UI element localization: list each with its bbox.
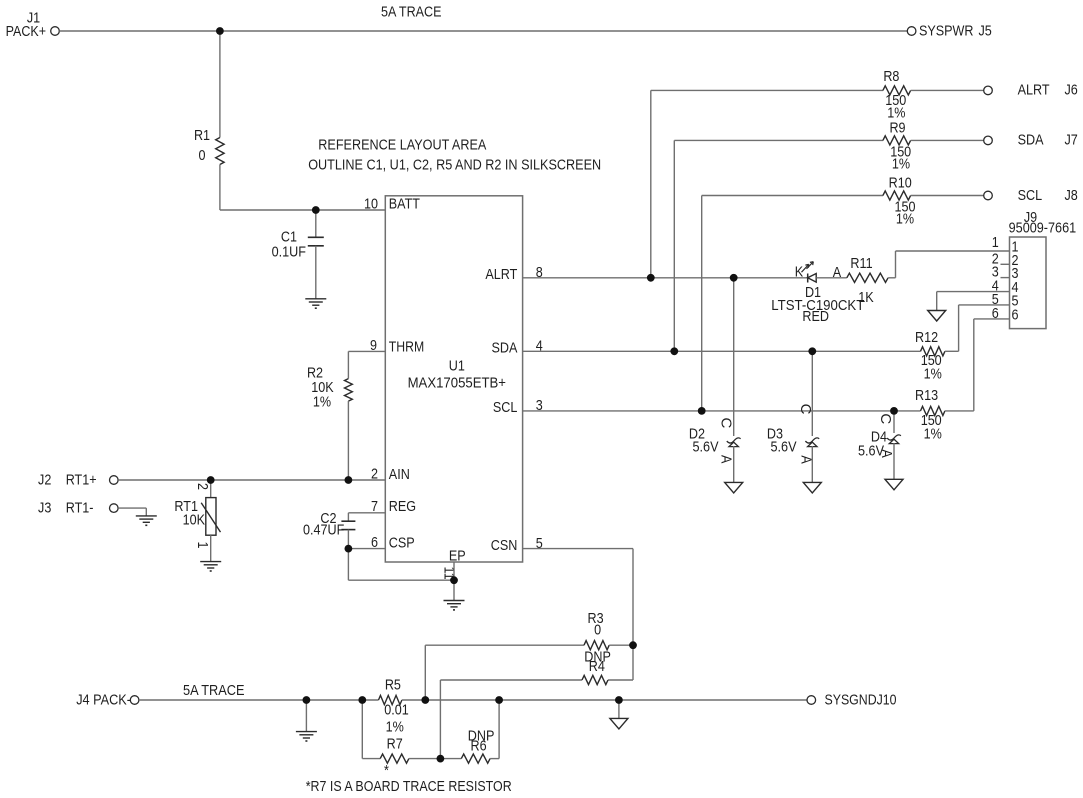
ground D3 — [803, 482, 821, 493]
resistor R9 — [883, 136, 911, 145]
wire R3 riser — [424, 645, 426, 700]
wire R8 row left — [651, 89, 883, 91]
wire D2 cathode lead — [733, 278, 735, 436]
wire REG pin7 — [348, 512, 385, 514]
svg-text:OUTLINE C1, U1, C2, R5 AND R2: OUTLINE C1, U1, C2, R5 AND R2 IN SILKSCR… — [308, 156, 601, 173]
junction ALRT / D2 — [730, 274, 738, 282]
wire CSP pin6 — [348, 548, 385, 550]
svg-text:CSN: CSN — [491, 537, 518, 554]
wire R1 top lead — [219, 31, 221, 138]
svg-text:1%: 1% — [892, 156, 910, 173]
svg-text:C: C — [718, 418, 735, 429]
wire R13 to J9 pin6 — [945, 410, 974, 412]
svg-text:1: 1 — [992, 234, 999, 251]
svg-text:5.6V: 5.6V — [771, 439, 797, 456]
wire R7 to R6 — [409, 758, 461, 760]
wire RT1 top lead — [210, 480, 212, 498]
junction BATT / C1 — [312, 206, 320, 214]
svg-text:K: K — [795, 264, 803, 281]
wire bottom rail right — [402, 699, 807, 701]
wire R9 row left — [674, 139, 883, 141]
resistor R8 — [883, 86, 911, 95]
wire R10 to J8 — [911, 195, 984, 197]
svg-text:ALRT: ALRT — [485, 266, 517, 283]
wire R8 to J6 — [911, 89, 984, 91]
svg-text:MAX17055ETB+: MAX17055ETB+ — [408, 375, 507, 392]
svg-text:SCL: SCL — [493, 399, 518, 416]
junction SDA / D3 — [808, 347, 816, 355]
svg-text:C: C — [797, 404, 814, 415]
ground D4 — [885, 479, 903, 490]
svg-text:AIN: AIN — [389, 466, 410, 483]
svg-text:1: 1 — [194, 542, 211, 549]
resistor R12 — [921, 347, 945, 356]
wire R8 riser — [650, 90, 652, 277]
wire C2 bottom lead — [347, 530, 349, 549]
svg-text:RT1+: RT1+ — [66, 472, 97, 489]
wire R7 left riser — [361, 700, 363, 759]
svg-text:*R7 IS A BOARD TRACE RESISTOR: *R7 IS A BOARD TRACE RESISTOR — [306, 778, 512, 795]
junction R5 left / R7 — [358, 696, 366, 704]
wire R11 to J9 pin1 — [888, 277, 895, 279]
wire SCL pin3 row — [523, 410, 921, 412]
svg-text:0: 0 — [594, 622, 601, 639]
svg-text:J3: J3 — [38, 500, 51, 517]
wire D4 cathode lead — [893, 411, 895, 433]
resistor R6 — [461, 754, 490, 763]
wire R4 row — [440, 679, 582, 681]
resistor R11 — [847, 273, 888, 282]
svg-text:U1: U1 — [449, 357, 465, 374]
svg-text:5A TRACE: 5A TRACE — [381, 4, 442, 21]
svg-text:5A TRACE: 5A TRACE — [183, 682, 245, 699]
svg-text:R11: R11 — [850, 255, 872, 272]
svg-text:R10: R10 — [889, 174, 912, 191]
svg-text:95009-7661: 95009-7661 — [1009, 220, 1077, 237]
wire D1 to R11 — [816, 277, 847, 279]
svg-text:REG: REG — [389, 498, 416, 515]
wire R3 right lead — [609, 644, 633, 646]
wire C2 top lead — [347, 513, 349, 521]
wire R10 riser — [701, 196, 703, 411]
svg-text:ALRT: ALRT — [1018, 82, 1050, 99]
svg-text:R1: R1 — [194, 127, 210, 144]
svg-text:6: 6 — [1012, 306, 1019, 323]
wire R10 row left — [702, 195, 883, 197]
node J8 terminal — [984, 191, 993, 200]
svg-text:R4: R4 — [589, 658, 605, 675]
pin stub J9-3 — [1001, 277, 1010, 279]
wire THRM pin9 — [348, 350, 385, 352]
svg-text:SDA: SDA — [492, 340, 518, 357]
ground J3 — [136, 515, 157, 517]
wire D3 cathode lead — [811, 351, 813, 436]
junction CSP / C2 — [345, 545, 353, 553]
svg-text:SYSGNDJ10: SYSGNDJ10 — [825, 692, 897, 709]
thermistor RT1 — [206, 498, 216, 536]
svg-text:J5: J5 — [979, 23, 992, 40]
zener diode D3 — [808, 442, 817, 447]
op-amp U1 MAX17055ETB+ body — [385, 196, 522, 562]
wire C1 bottom lead — [315, 246, 317, 299]
node J4 terminal — [130, 696, 139, 705]
wire EP ground lead — [453, 580, 455, 600]
svg-text:BATT: BATT — [389, 195, 420, 212]
ground EP — [444, 600, 465, 602]
wire bottom rail left — [139, 699, 379, 701]
svg-text:R7: R7 — [387, 736, 403, 753]
wire RT1 bottom lead — [210, 535, 212, 561]
wire SYSGND ground lead — [618, 700, 620, 718]
wire bottom ground lead — [305, 700, 307, 732]
svg-text:SYSPWR: SYSPWR — [919, 23, 974, 40]
svg-text:10: 10 — [364, 195, 378, 212]
wire R9 riser — [673, 140, 675, 351]
wire SDA pin4 row — [523, 350, 921, 352]
resistor R10 — [883, 191, 911, 200]
ground SYSGND triangle — [610, 718, 628, 729]
resistor R3 — [584, 641, 609, 650]
resistor R2 — [345, 379, 353, 402]
ground RT1 — [200, 561, 221, 563]
junction SCL / R10 riser — [698, 407, 706, 415]
junction R3 / R4 / CSN — [629, 641, 637, 649]
svg-text:1%: 1% — [386, 718, 404, 735]
svg-text:R12: R12 — [915, 329, 938, 346]
node J5 terminal SYSPWR — [907, 27, 916, 36]
svg-text:RED: RED — [802, 308, 829, 325]
svg-text:0: 0 — [199, 147, 206, 164]
wire R1 to BATT pin10 — [220, 209, 385, 211]
svg-text:1%: 1% — [313, 394, 331, 411]
ground D2 — [725, 482, 743, 493]
ground bottom rail — [296, 731, 317, 733]
node J2 terminal — [110, 476, 119, 485]
wire R9 to J7 — [911, 139, 984, 141]
svg-text:PACK+: PACK+ — [6, 23, 47, 40]
wire D3 anode lead — [811, 446, 813, 482]
wire CSN pin5 — [523, 548, 633, 550]
wire AIN row — [118, 479, 385, 481]
svg-text:SCL: SCL — [1018, 187, 1043, 204]
wire EP pin11 — [453, 562, 455, 580]
ground C1 — [305, 298, 326, 300]
svg-text:A: A — [878, 449, 895, 457]
pin stub J9-2 — [1001, 263, 1010, 265]
junction EP — [450, 576, 458, 584]
junction SCL / D4 — [890, 407, 898, 415]
wire ALRT pin8 row — [523, 277, 808, 279]
node J1 terminal — [51, 27, 60, 36]
svg-text:0.01: 0.01 — [384, 702, 409, 719]
svg-text:0.1UF: 0.1UF — [272, 243, 306, 260]
wire CSP to EP — [347, 549, 349, 581]
connector J9 body — [1010, 237, 1047, 329]
svg-text:R9: R9 — [889, 119, 905, 136]
junction top rail / R1 — [216, 27, 224, 35]
svg-text:*: * — [384, 762, 389, 779]
node J3 terminal — [110, 504, 119, 513]
zener diode D2 — [729, 442, 738, 447]
junction R6 riser — [495, 696, 503, 704]
svg-text:C: C — [877, 413, 894, 424]
svg-text:EP: EP — [449, 547, 466, 564]
junction AIN / RT1 — [207, 476, 215, 484]
svg-text:J6: J6 — [1065, 82, 1078, 99]
wire C1 top lead — [315, 210, 317, 237]
svg-text:0.47UF: 0.47UF — [303, 521, 344, 538]
wire R4 right riser — [632, 645, 634, 680]
svg-text:CSP: CSP — [389, 535, 415, 552]
svg-text:J4 PACK-: J4 PACK- — [76, 692, 131, 709]
svg-text:SDA: SDA — [1018, 132, 1044, 149]
junction ALRT / R8 riser — [647, 274, 655, 282]
svg-text:2: 2 — [194, 483, 211, 490]
wire R1 bottom lead — [219, 165, 221, 211]
capacitor C1 — [308, 236, 324, 238]
junction AIN / R2 — [345, 476, 353, 484]
svg-text:A: A — [718, 455, 735, 463]
svg-text:J8: J8 — [1065, 187, 1078, 204]
junction R7 / R6 / R4 — [437, 755, 445, 763]
capacitor C2 — [341, 520, 355, 522]
junction SDA / R9 riser — [670, 347, 678, 355]
svg-text:J7: J7 — [1065, 132, 1078, 149]
LED D1 — [807, 274, 809, 283]
wire R4 left riser — [439, 680, 441, 759]
svg-text:REFERENCE LAYOUT AREA: REFERENCE LAYOUT AREA — [318, 137, 486, 154]
wire R3 row — [425, 644, 584, 646]
svg-text:R8: R8 — [883, 68, 899, 85]
wire D4 anode lead — [893, 443, 895, 479]
svg-text:R6: R6 — [471, 738, 487, 755]
node J7 terminal — [984, 136, 993, 145]
resistor R13 — [921, 406, 945, 415]
node J6 terminal — [984, 86, 993, 95]
svg-text:1%: 1% — [896, 211, 914, 228]
junction R5 right / R3 riser — [421, 696, 429, 704]
ground J9 pin4 — [928, 311, 946, 322]
node J10 terminal SYSGND — [807, 696, 816, 705]
svg-text:THRM: THRM — [389, 339, 424, 356]
svg-text:1K: 1K — [858, 289, 874, 306]
junction bottom rail ground — [303, 696, 311, 704]
wire J9 pin4 to ground — [937, 291, 1010, 293]
svg-text:J2: J2 — [38, 472, 51, 489]
resistor R1 — [216, 138, 224, 165]
wire top rail PACK+ to SYSPWR — [59, 30, 907, 32]
wire R2 top lead — [347, 351, 349, 378]
svg-text:5.6V: 5.6V — [693, 439, 719, 456]
svg-text:R13: R13 — [915, 387, 938, 404]
resistor R7 — [380, 754, 409, 763]
wire R7 row left — [362, 758, 380, 760]
wire R6 right lead — [490, 758, 499, 760]
junction SYSGND ground — [615, 696, 623, 704]
wire R2 bottom lead — [347, 401, 349, 480]
svg-text:RT1-: RT1- — [66, 500, 94, 517]
resistor R5 — [379, 695, 402, 704]
svg-text:1%: 1% — [924, 426, 942, 443]
wire D2 anode lead — [733, 446, 735, 482]
zener diode D4 — [889, 439, 898, 444]
resistor R4 — [582, 675, 608, 684]
wire J3 to ground — [118, 507, 146, 509]
svg-text:1%: 1% — [924, 366, 942, 383]
svg-text:10K: 10K — [183, 512, 205, 529]
svg-text:R5: R5 — [385, 676, 401, 693]
wire R12 to J9 pin5 — [945, 350, 959, 352]
